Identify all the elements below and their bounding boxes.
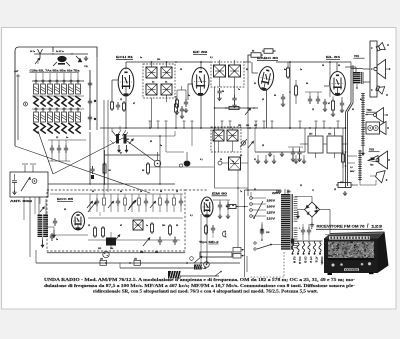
output transformer T3	[353, 72, 361, 84]
svg-text:2a 21 1a: 2a 21 1a	[56, 51, 65, 53]
tone block K1	[308, 136, 323, 153]
resistor R14	[103, 164, 106, 173]
capacitor C13 filter	[307, 229, 311, 231]
capacitor C8 ant	[14, 174, 16, 180]
tuning coil bank row1 (OM)	[32, 80, 84, 82]
svg-text:0,1: 0,1	[200, 159, 203, 161]
FM unit dark box	[106, 238, 116, 246]
svg-text:25: 25	[150, 141, 152, 143]
FM unit dashed outline	[47, 190, 185, 251]
wire cluster rail	[127, 135, 175, 137]
svg-text:EABC 80: EABC 80	[257, 56, 279, 60]
connector CN2	[194, 265, 202, 270]
svg-text:COMP.: COMP.	[320, 257, 324, 265]
wire selector col	[244, 190, 246, 277]
wire em80 col	[214, 87, 216, 188]
svg-text:47: 47	[120, 224, 122, 227]
svg-text:ANT: ANT	[14, 70, 19, 73]
resistor R12	[228, 205, 236, 209]
speaker LS5 tweeter	[380, 122, 387, 135]
svg-text:15: 15	[334, 189, 336, 191]
wire top antenna rail	[34, 53, 88, 55]
svg-text:140: 140	[100, 257, 103, 260]
svg-text:C28a 82L 7Aa 8Ba 9Ba 92a 7Ba: C28a 82L 7Aa 8Ba 9Ba 92a 7Ba	[30, 69, 81, 73]
wire fm bottom rail	[35, 250, 37, 263]
svg-text:103: 103	[98, 248, 101, 250]
svg-text:82: 82	[240, 155, 242, 157]
capacitor C3	[281, 96, 285, 98]
AVC cluster	[116, 134, 119, 144]
svg-text:56: 56	[232, 205, 234, 207]
speaker LS7 woofer	[376, 159, 379, 162]
switch frame S1	[89, 132, 91, 184]
capacitor C2	[180, 108, 184, 110]
svg-text:19: 19	[322, 65, 324, 67]
svg-text:EM 80: EM 80	[212, 192, 228, 196]
svg-text:EF 89: EF 89	[193, 50, 208, 54]
resistor R8	[338, 183, 351, 188]
antenna box A2	[10, 172, 48, 197]
svg-text:47: 47	[133, 102, 135, 105]
svg-text:107: 107	[254, 125, 257, 127]
resistor R7 cathode	[332, 101, 335, 110]
choke L4 tapped	[362, 93, 364, 148]
wire xover feed2	[348, 155, 358, 157]
svg-text:31: 31	[300, 185, 302, 187]
wire chassis rail	[48, 183, 175, 185]
speaker LS1 tweeter	[376, 42, 386, 52]
wire rail top right	[276, 61, 351, 63]
tube V3 EABC80	[256, 65, 275, 92]
svg-text:19: 19	[176, 191, 178, 193]
svg-text:UNDA RADIO - Mod. AM/FM 76/12.: UNDA RADIO - Mod. AM/FM 76/12.5. A modul…	[44, 277, 356, 282]
svg-text:12: 12	[88, 225, 90, 227]
resistor R5	[287, 68, 290, 77]
speaker LS4	[374, 114, 377, 117]
potentiometer P2	[241, 141, 245, 145]
wire left col	[29, 197, 31, 257]
wire B+ bus	[100, 127, 345, 129]
terminal J1	[32, 179, 37, 184]
capacitor C5	[323, 101, 327, 103]
capacitor C1	[116, 104, 120, 106]
capacitor C10	[226, 204, 230, 206]
svg-text:12: 12	[312, 109, 314, 111]
svg-text:141: 141	[134, 257, 137, 260]
ground G3 chassis	[261, 224, 263, 229]
wire v3 col	[289, 62, 291, 128]
tube V1 ECH81	[118, 68, 134, 96]
cable harness to radio	[290, 240, 323, 242]
wire left col pair	[103, 100, 105, 192]
wire tone gnd rail	[255, 151, 305, 153]
svg-text:dulazione di frequenza da 87,5: dulazione di frequenza da 87,5 a 100 Mc/…	[44, 283, 356, 288]
switch S3 mains	[254, 242, 256, 244]
svg-text:31: 31	[254, 159, 256, 161]
radio cabinet mod 76/123	[324, 232, 385, 239]
divider bracket	[177, 89, 186, 91]
resistor R6	[295, 86, 298, 95]
svg-text:25: 25	[176, 225, 178, 227]
FM unit RF components	[50, 193, 183, 195]
resistor R15	[147, 164, 150, 173]
FM unit bottom boxes	[100, 260, 107, 265]
svg-text:0,5 M: 0,5 M	[293, 257, 297, 264]
terminal G2 circle	[24, 102, 28, 106]
capacitor C15	[184, 101, 188, 103]
wire spk feeds	[363, 68, 370, 70]
svg-text:unda: unda	[345, 268, 359, 272]
connector CN1	[168, 271, 181, 279]
FM unit big trimmers	[88, 203, 95, 212]
svg-text:RICEVITORE FM OM 76: RICEVITORE FM OM 76	[317, 225, 365, 229]
crossover box X1	[366, 122, 380, 134]
svg-text:AT B: AT B	[315, 257, 319, 263]
power transformer T4	[281, 194, 290, 250]
bridge rectifier BR1	[305, 202, 320, 217]
svg-text:47: 47	[328, 102, 330, 105]
svg-text:90: 90	[352, 109, 354, 111]
trimmer ant arrow	[21, 177, 30, 191]
resistor R11	[229, 106, 239, 109]
svg-text:180V: 180V	[267, 199, 276, 203]
wire V2 plate	[175, 61, 211, 63]
ground row mid	[257, 155, 259, 159]
capacitor C6 xover	[342, 154, 345, 162]
svg-text:76/3: 76/3	[369, 148, 375, 152]
svg-text:16 1a: 16 1a	[30, 51, 36, 53]
svg-text:25: 25	[180, 69, 182, 71]
wire feedback loop	[248, 55, 249, 62]
capacitor C14 pair	[291, 151, 295, 153]
wire ant stubs	[24, 165, 26, 172]
svg-text:76/2: 76/2	[367, 108, 373, 112]
svg-text:OY B: OY B	[309, 257, 313, 263]
resistor R13	[205, 226, 208, 233]
voltage selector S2	[250, 197, 253, 200]
IF transformer T1	[143, 64, 175, 98]
svg-text:ECH 81: ECH 81	[116, 55, 134, 59]
svg-text:0,1: 0,1	[190, 215, 193, 217]
coil L3	[229, 157, 241, 170]
capacitor C7	[308, 98, 312, 100]
tuning coil bank row2 (OC)	[32, 108, 84, 110]
svg-text:33: 33	[338, 65, 340, 67]
lamp LP1	[150, 166, 214, 168]
svg-text:ANT. 80Ω: ANT. 80Ω	[10, 200, 32, 203]
wire mid rail2	[215, 187, 249, 189]
speaker LS3 tweeter	[375, 84, 385, 94]
svg-text:56: 56	[222, 91, 224, 93]
svg-text:ridirezionale SR, con 5 altopa: ridirezionale SR, con 5 altoparlanti nei…	[93, 289, 318, 294]
svg-text:100: 100	[157, 59, 160, 61]
wire loop rail2	[119, 263, 121, 268]
speaker baffle panel	[370, 41, 377, 97]
IF transformer T5 ratio det	[211, 127, 241, 152]
wire drops from bus	[165, 128, 167, 152]
svg-text:106: 106	[246, 125, 249, 127]
svg-text:100: 100	[126, 139, 129, 141]
svg-text:1,0: 1,0	[350, 167, 353, 169]
svg-text:90: 90	[274, 95, 276, 97]
capacitor C9	[218, 204, 222, 206]
ground G1	[85, 56, 87, 58]
svg-text:76/1: 76/1	[354, 54, 360, 58]
antenna A1 trimmer	[38, 49, 41, 54]
svg-text:90: 90	[92, 191, 94, 193]
wire transformer dashes	[283, 252, 285, 277]
coil L1 dark blob	[57, 56, 66, 62]
wire top rail1	[143, 61, 175, 63]
tube V6 EM80	[201, 197, 213, 217]
svg-text:C1L B: C1L B	[298, 257, 302, 265]
pickup terminals	[233, 248, 241, 253]
svg-text:56: 56	[220, 159, 222, 161]
svg-text:15: 15	[262, 99, 264, 101]
resistor R3	[251, 53, 261, 58]
resistor R10	[176, 100, 179, 107]
svg-text:123: 123	[371, 225, 382, 229]
svg-text:0,1: 0,1	[210, 57, 213, 59]
svg-text:Tipo: Tipo	[199, 240, 207, 244]
wire bridge out	[329, 210, 331, 241]
dial cord linkage	[15, 146, 150, 193]
FM unit extra caps	[158, 239, 162, 241]
svg-text:12: 12	[120, 99, 122, 101]
pulley P1	[154, 160, 161, 167]
junction dots misc	[175, 61, 177, 63]
svg-text:140: 140	[287, 191, 292, 194]
speaker LS2 woofer	[374, 67, 377, 70]
svg-text:82: 82	[254, 189, 256, 191]
tube V4 EL84	[330, 72, 346, 96]
resistor R1	[111, 102, 114, 109]
svg-text:125V: 125V	[267, 211, 276, 215]
svg-text:82: 82	[246, 69, 248, 71]
IF transformer T2	[211, 62, 244, 87]
capacitor C12 filter	[301, 229, 305, 231]
svg-text:160V: 160V	[267, 205, 276, 209]
svg-text:400V: 400V	[350, 170, 355, 173]
capacitor C11	[260, 229, 264, 231]
FM unit mid components	[94, 228, 97, 236]
tweeter LS6 flat	[368, 156, 378, 163]
stub wires above cluster	[111, 128, 113, 132]
resistor R4	[264, 49, 273, 54]
pickup PU1 arm	[200, 252, 232, 257]
svg-text:MD-2: MD-2	[209, 240, 219, 244]
svg-text:31: 31	[254, 83, 256, 85]
wire tuner right column	[89, 70, 91, 130]
speaker LS8 tweeter	[375, 169, 386, 183]
tone block K2	[327, 136, 342, 153]
wire right mid v	[342, 128, 344, 183]
tube V2 EF89	[192, 68, 209, 96]
svg-text:CH B: CH B	[304, 257, 308, 263]
wire fm inner rail	[88, 217, 183, 219]
svg-text:EL 84: EL 84	[326, 55, 341, 59]
resistor R2	[175, 104, 178, 112]
capacitor C16	[90, 168, 94, 170]
resistor R9	[123, 103, 126, 110]
wire right drop pair	[345, 112, 347, 188]
tuner enclosure outline	[15, 47, 53, 146]
diode D1 arrow	[76, 56, 82, 62]
svg-text:ECC 85: ECC 85	[57, 197, 74, 201]
choke L5 tapped	[359, 150, 361, 181]
wire det bus	[214, 107, 258, 109]
wire stubs on B+ bus	[149, 121, 151, 128]
svg-text:100: 100	[162, 225, 165, 227]
trimmer T7	[245, 109, 250, 115]
svg-text:33: 33	[64, 209, 66, 211]
svg-text:110V: 110V	[267, 217, 276, 221]
svg-text:220V: 220V	[276, 191, 282, 194]
tube V5 ECC85	[72, 212, 85, 230]
capacitor group above S1	[48, 139, 86, 141]
svg-text:C2L: C2L	[84, 66, 89, 68]
trimmer T6	[248, 142, 253, 148]
jack J3	[204, 262, 210, 268]
FM coil L2	[38, 215, 43, 238]
capacitor C4 cathode	[340, 102, 344, 104]
coil loop mark	[223, 231, 227, 237]
svg-text:15: 15	[262, 145, 264, 147]
wire V1 plate	[126, 61, 143, 63]
jack J2	[103, 251, 109, 257]
